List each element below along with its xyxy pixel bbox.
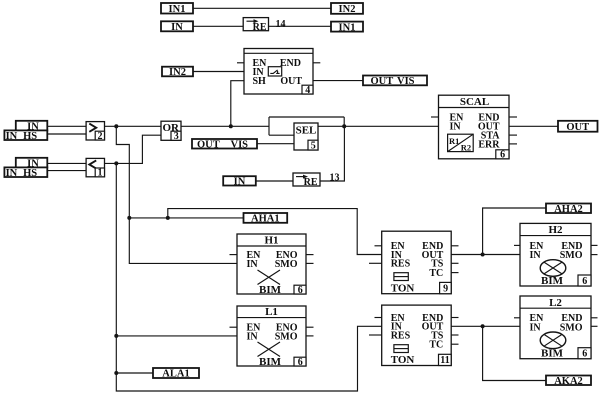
block L2 (lamp monitor) [520, 296, 591, 360]
wire RE14 to IN1 [269, 25, 332, 27]
svg-text:6: 6 [582, 349, 587, 360]
junction dot (lt output) [114, 161, 118, 165]
wire low rail (lt branch down) [116, 163, 381, 391]
stub END (H2) [591, 244, 598, 246]
svg-text:IN: IN [530, 322, 542, 333]
icon timer (TON9) [394, 273, 408, 281]
junction dot (TON9 tap) [166, 216, 170, 220]
stub EN (H2) [514, 244, 520, 246]
number box 6 (L1) [294, 357, 306, 366]
comparator block 2 (greater than) [86, 122, 104, 142]
wire IN HS to comparator2 [47, 133, 86, 135]
wire comparator2 to OR [105, 125, 162, 127]
stub EN (block4) [237, 62, 244, 64]
terminal IN (row 2 left) [161, 21, 193, 33]
wire to AHA2 [483, 208, 546, 255]
svg-text:IN2: IN2 [169, 67, 186, 78]
junction dot (AHA1 tap) [127, 216, 131, 220]
block SEL 5 [294, 123, 318, 151]
number box 11 (TON11) [439, 354, 452, 365]
junction dot (AHA2 tap) [481, 253, 485, 257]
stub EN (L2) [514, 317, 520, 319]
svg-text:IN: IN [247, 331, 259, 342]
svg-text:ERR: ERR [478, 139, 500, 150]
wire SH riser from main line [231, 81, 244, 127]
svg-text:RES: RES [391, 259, 411, 270]
stub RES (TON9) [369, 262, 382, 264]
terminal AHA1 [244, 213, 288, 225]
gate OR 3 [161, 121, 181, 142]
svg-text:RE: RE [304, 177, 318, 188]
wire SEL bypass riser [268, 117, 270, 135]
svg-text:4: 4 [305, 85, 310, 96]
stub SMO (L2) [591, 325, 598, 327]
svg-text:AHA1: AHA1 [251, 214, 280, 225]
stub SMO (H2) [591, 254, 598, 256]
svg-text:SMO: SMO [275, 259, 298, 270]
wire bypass drop [343, 117, 345, 126]
number box 4 [302, 85, 313, 94]
stub END (SCAL) [509, 116, 517, 118]
block L1 (binary monitor) [237, 306, 306, 368]
stub ENO (L1) [306, 326, 314, 328]
svg-text:IN: IN [171, 22, 183, 33]
junction dot (SEL output) [342, 124, 346, 128]
wire IN2 to block4 [193, 71, 244, 73]
svg-text:OUT: OUT [566, 122, 589, 133]
wire AHA1 tap to TON9 IN [168, 209, 382, 255]
stub END (TON11) [451, 317, 458, 319]
terminal OUT VIS (top) [363, 76, 427, 88]
terminal IN (comparator 2) [16, 121, 48, 133]
block H2 (lamp monitor) [520, 223, 591, 287]
icon X (L1) [258, 342, 281, 357]
svg-text:IN HS: IN HS [6, 168, 38, 179]
stub TS (TON9) [451, 262, 458, 264]
svg-text:9: 9 [443, 283, 448, 294]
terminal IN1 (row 2 right) [331, 22, 363, 34]
svg-text:SMO: SMO [275, 331, 298, 342]
stub SMO (L1) [306, 335, 314, 337]
wire TON11 OUT to L2 IN [451, 325, 520, 327]
wire block4 OUT to OUT VIS [313, 80, 363, 82]
block RE 13 (rising edge) [293, 173, 320, 188]
wire comparator1 to OR riser [105, 135, 162, 163]
wire IN HS to comparator1 [47, 170, 86, 172]
svg-text:1: 1 [98, 168, 103, 179]
block H1 (binary monitor) [237, 234, 306, 296]
terminal ALA1 [153, 368, 199, 380]
svg-text:6: 6 [298, 357, 303, 368]
svg-text:3: 3 [174, 131, 179, 142]
wire IN to comparator1 [47, 162, 86, 164]
svg-text:AHA2: AHA2 [554, 204, 583, 215]
svg-text:IN: IN [450, 122, 462, 133]
wire IN to RE13 [256, 180, 293, 182]
block TON 9 (on-delay timer) [382, 231, 452, 294]
wire IN1 to IN2 [193, 7, 331, 9]
stub TS (TON11) [451, 334, 458, 336]
svg-text:TON: TON [391, 354, 415, 366]
svg-text:IN HS: IN HS [6, 131, 38, 142]
svg-text:6: 6 [298, 285, 303, 296]
wire IN to comparator2 [47, 125, 86, 127]
svg-text:TC: TC [429, 340, 443, 351]
junction dot (SH riser tap) [229, 124, 233, 128]
number box 9 (TON9) [440, 282, 452, 293]
svg-text:RES: RES [391, 330, 411, 341]
svg-text:RE: RE [253, 22, 267, 33]
junction dot (ALA1 tap) [114, 371, 118, 375]
wire L1 IN [116, 335, 237, 337]
stub EN (SCAL) [431, 116, 439, 118]
wire to AKA2 [483, 326, 546, 380]
svg-text:14: 14 [276, 19, 286, 30]
svg-text:11: 11 [440, 355, 449, 366]
terminal IN (RE13 input) [223, 176, 256, 187]
icon R1/R2 ratio (SCAL) [448, 134, 474, 151]
terminal OUT VIS (SEL input) [192, 139, 257, 150]
terminal IN HS (comparator 2) [4, 130, 47, 142]
terminal IN2 (block4 input) [162, 67, 193, 79]
svg-text:SH: SH [253, 76, 267, 87]
svg-text:IN2: IN2 [339, 4, 356, 15]
icon switch (block4) [268, 67, 281, 76]
stub EN (L1) [230, 326, 238, 328]
number box 6 (H1) [294, 285, 306, 294]
svg-text:OUT VIS: OUT VIS [370, 76, 414, 87]
wire TON9 OUT to H2 IN [451, 254, 520, 256]
stub EN (TON11) [375, 317, 382, 319]
svg-text:SMO: SMO [560, 322, 583, 333]
svg-text:5: 5 [311, 140, 316, 151]
stub END (TON9) [451, 245, 458, 247]
junction dot (AKA2 tap) [481, 324, 485, 328]
wire SEL bypass top [269, 116, 344, 118]
block RE 14 (rising edge) [243, 18, 268, 33]
terminal OUT [558, 121, 598, 133]
svg-text:OUT: OUT [280, 76, 302, 87]
wire to ALA1 [116, 372, 153, 374]
terminal IN2 (top right) [331, 3, 363, 15]
stub RES (TON11) [369, 334, 382, 336]
svg-text:IN1: IN1 [169, 4, 186, 15]
icon lamp (L2) [540, 332, 566, 349]
stub TC (TON9) [451, 272, 458, 274]
icon lamp (H2) [540, 260, 566, 277]
number box 6 (SCAL) [496, 150, 509, 159]
wire SEL input 1 [269, 134, 294, 136]
stub EN (H1) [230, 254, 238, 256]
wire OR output main line [181, 125, 269, 127]
svg-text:ALA1: ALA1 [162, 369, 189, 380]
comparator block 1 (less than) [86, 158, 104, 178]
svg-text:END: END [280, 58, 301, 69]
block TON 11 (on-delay timer) [382, 305, 452, 366]
svg-text:6: 6 [582, 276, 587, 287]
svg-text:BIM: BIM [541, 275, 564, 287]
svg-text:IN1: IN1 [339, 22, 356, 33]
number box 6 (H2) [578, 275, 591, 286]
stub ENO (H1) [306, 254, 314, 256]
wire IN to RE14 [193, 25, 243, 27]
svg-text:6: 6 [500, 150, 505, 161]
svg-text:L2: L2 [549, 297, 562, 309]
svg-text:L1: L1 [265, 306, 278, 318]
wire SEL output to SCAL [318, 125, 439, 127]
wire OUT VIS to SEL [257, 143, 294, 145]
svg-text:R1: R1 [449, 136, 459, 146]
stub ERR (SCAL) [509, 143, 517, 145]
icon timer (TON11) [394, 345, 408, 353]
wire high rail (gt branch down with jog) [116, 126, 237, 263]
svg-text:AKA2: AKA2 [554, 376, 583, 387]
block SCAL 6 [439, 95, 510, 160]
svg-text:BIM: BIM [259, 356, 282, 368]
junction dot (L1 tap) [114, 334, 118, 338]
svg-text:BIM: BIM [541, 348, 564, 360]
number box 6 (L2) [578, 348, 591, 359]
svg-text:H2: H2 [548, 224, 563, 236]
svg-text:2: 2 [98, 131, 103, 142]
wire AHA1 line [129, 217, 243, 219]
terminal IN1 (top left) [161, 3, 193, 15]
svg-text:BIM: BIM [259, 284, 282, 296]
svg-text:IN: IN [530, 250, 542, 261]
stub END (block4) [313, 62, 320, 64]
wire SCAL OUT to OUT terminal [509, 125, 558, 127]
svg-text:SMO: SMO [560, 250, 583, 261]
svg-text:R2: R2 [461, 143, 471, 153]
svg-text:IN: IN [234, 177, 246, 188]
svg-text:OUT VIS: OUT VIS [197, 139, 248, 150]
svg-text:13: 13 [330, 173, 340, 184]
svg-text:H1: H1 [264, 235, 278, 247]
block U4 (sample/hold) [244, 49, 313, 96]
svg-text:TC: TC [429, 268, 443, 279]
svg-text:SEL: SEL [296, 124, 317, 136]
svg-text:IN: IN [247, 259, 259, 270]
terminal IN (comparator 1) [16, 158, 48, 170]
stub SMO (H1) [306, 262, 314, 264]
terminal AKA2 [546, 376, 591, 387]
stub END (L2) [591, 317, 598, 319]
junction dot (gt output) [114, 124, 118, 128]
svg-text:TON: TON [391, 282, 415, 294]
svg-text:SCAL: SCAL [460, 96, 489, 108]
terminal IN HS (comparator 1) [4, 167, 47, 179]
icon X (H1) [258, 270, 281, 285]
stub TC (TON11) [451, 343, 458, 345]
stub STA (SCAL) [509, 134, 517, 136]
terminal AHA2 [546, 204, 591, 215]
stub EN (TON9) [375, 245, 382, 247]
wire RE13 riser [320, 126, 344, 181]
